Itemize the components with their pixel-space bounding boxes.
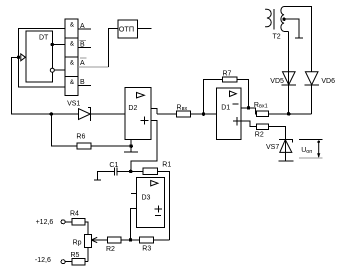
- svg-text:R7: R7: [223, 71, 232, 78]
- wire: [204, 80, 223, 115]
- VD5 cathode bar: [282, 84, 296, 86]
- wire: [241, 108, 257, 114]
- wire: [131, 121, 157, 172]
- overline B: [80, 40, 87, 42]
- svg-text:&: &: [70, 79, 75, 86]
- svg-text:+12,6: +12,6: [36, 219, 54, 226]
- gate divider: [65, 56, 78, 58]
- svg-text:Uоп: Uоп: [301, 147, 312, 155]
- diode VD5: [283, 72, 296, 85]
- svg-text:R2: R2: [106, 246, 115, 253]
- transformer T2 primary: [265, 9, 271, 27]
- AND gate block U1: [65, 19, 78, 95]
- resistor R4: [72, 219, 85, 226]
- svg-text:Rр: Rр: [73, 239, 82, 246]
- svg-text:VD5: VD5: [270, 78, 284, 85]
- diode VD6: [305, 72, 318, 85]
- node common: [129, 144, 133, 148]
- wire: [65, 221, 72, 223]
- wire: [78, 28, 91, 30]
- potentiometer wiper arrow: [91, 237, 97, 242]
- terminal +12.6: [61, 220, 65, 224]
- wire: [241, 121, 257, 127]
- VS1 cathode bar: [88, 107, 90, 121]
- wire: [65, 261, 72, 263]
- D1 minus sign: [233, 103, 239, 105]
- resistor Rvx1: [257, 111, 269, 116]
- Uop bottom plate: [299, 157, 323, 159]
- Uop arrowhead bottom: [317, 153, 320, 158]
- svg-text:D1: D1: [221, 105, 230, 112]
- op-amp D2: [125, 88, 151, 140]
- svg-text:VS7: VS7: [266, 144, 279, 151]
- op-amp D3: [137, 177, 165, 227]
- wire: [108, 29, 118, 68]
- wire: [11, 57, 78, 114]
- svg-text:R5: R5: [71, 252, 80, 259]
- node fb1: [202, 112, 206, 116]
- svg-text:VS1: VS1: [67, 100, 80, 107]
- svg-text:R4: R4: [70, 210, 79, 217]
- overline A: [80, 57, 87, 59]
- thyristor VS1: [79, 109, 91, 120]
- wire: [78, 47, 91, 49]
- clock input triangle: [21, 54, 26, 61]
- optocoupler OTP box: [118, 20, 138, 38]
- potentiometer Rp body: [85, 234, 92, 247]
- wire: [52, 44, 65, 46]
- node R2R3: [129, 238, 133, 242]
- wire: [151, 108, 157, 114]
- wire: [54, 69, 65, 71]
- node tap: [282, 18, 285, 21]
- resistor R1: [143, 168, 158, 175]
- D3 triangle: [151, 181, 158, 186]
- resistor Rvx: [177, 111, 191, 117]
- resistor R7: [223, 77, 237, 82]
- wire: [85, 222, 88, 235]
- node A1: [17, 56, 20, 59]
- wire: [284, 140, 286, 161]
- wire: [78, 66, 108, 68]
- D2 triangle: [137, 93, 145, 98]
- svg-text:T2: T2: [273, 33, 281, 40]
- capacitor C1: [114, 167, 117, 175]
- gate divider: [65, 37, 78, 39]
- resistor R3: [140, 237, 154, 243]
- svg-text:R1: R1: [162, 162, 171, 169]
- wire: [288, 32, 290, 114]
- svg-text:&: &: [70, 21, 75, 28]
- node Q: [51, 43, 55, 47]
- wire: [138, 28, 152, 30]
- node fb2: [247, 106, 251, 110]
- svg-text:DT: DT: [39, 35, 49, 42]
- wire: [90, 113, 125, 115]
- gate divider: [65, 75, 78, 77]
- transformer T2 secondary: [281, 7, 284, 32]
- resistor R6: [77, 143, 91, 149]
- wire: [131, 193, 137, 195]
- svg-text:-12,6: -12,6: [35, 257, 51, 264]
- svg-text:ОТП: ОТП: [119, 25, 134, 34]
- wire: [269, 127, 286, 140]
- svg-text:R2: R2: [255, 132, 264, 139]
- wire: [190, 113, 216, 115]
- wire: [78, 84, 91, 86]
- Uop top plate: [299, 139, 323, 141]
- node rail: [50, 112, 54, 116]
- node rect: [287, 112, 291, 116]
- wire: [157, 113, 177, 115]
- svg-text:&: &: [70, 40, 75, 47]
- zener VS7 cathode bar: [279, 139, 293, 142]
- VD6 cathode bar: [305, 84, 319, 86]
- D2 plus sign: [140, 117, 148, 125]
- node C1R1: [129, 170, 133, 174]
- svg-text:Rвх: Rвх: [177, 105, 188, 113]
- svg-text:D2: D2: [128, 105, 137, 112]
- resistor R2b: [257, 124, 269, 129]
- resistor R5: [72, 259, 85, 265]
- wire: [131, 208, 137, 240]
- terminal -12.6: [61, 260, 65, 264]
- wire: [51, 114, 77, 146]
- svg-text:R6: R6: [76, 134, 85, 141]
- wire: [85, 247, 88, 261]
- wire: [237, 80, 249, 108]
- Uop arrow top dot: [317, 141, 320, 144]
- svg-text:R3: R3: [142, 246, 151, 253]
- inversion bubble: [50, 68, 54, 72]
- wire: [19, 29, 65, 87]
- wire: [269, 113, 312, 115]
- wire: [154, 239, 170, 241]
- transformer T2 core: [273, 9, 275, 30]
- wire: [124, 140, 138, 153]
- wire: [117, 170, 143, 172]
- svg-text:Rвх1: Rвх1: [254, 102, 268, 110]
- Uop arrow: [318, 142, 320, 158]
- D3 plus sign: [155, 205, 162, 212]
- D1 triangle: [230, 91, 237, 97]
- svg-text:A: A: [80, 60, 85, 67]
- D3 minus sign: [155, 215, 161, 217]
- svg-text:VD6: VD6: [321, 78, 335, 85]
- svg-text:D3: D3: [142, 194, 151, 201]
- flip-flop DT: [26, 31, 53, 82]
- wire: [121, 239, 139, 241]
- wire: [94, 171, 115, 180]
- resistor R2: [108, 237, 122, 243]
- wire: [91, 145, 131, 147]
- VS7 triangle: [280, 140, 292, 153]
- wire: [284, 7, 312, 72]
- D1 plus sign: [233, 117, 241, 125]
- wire: [91, 239, 107, 241]
- svg-text:&: &: [70, 59, 75, 66]
- op-amp D1: [216, 88, 241, 140]
- wire: [158, 171, 170, 240]
- wire: [284, 30, 289, 32]
- ground VS7: [279, 160, 294, 162]
- wire: [284, 19, 303, 38]
- wire: [311, 85, 313, 114]
